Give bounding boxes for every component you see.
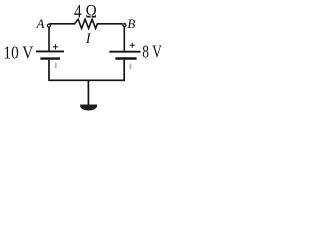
svg-text:A: A — [36, 16, 45, 31]
svg-text:10 V: 10 V — [3, 43, 33, 63]
svg-text:4 Ω: 4 Ω — [74, 2, 97, 23]
svg-text:8 V: 8 V — [142, 42, 162, 62]
svg-text:B: B — [127, 16, 135, 31]
